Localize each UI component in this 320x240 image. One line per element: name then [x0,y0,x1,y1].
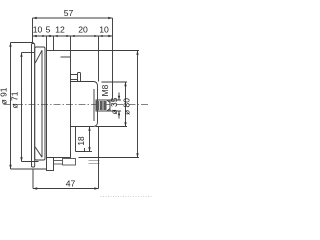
dim 57 line [33,17,113,19]
bottom box C [89,160,100,162]
filling plug [71,74,78,76]
bezel outer rim (ø91) [32,44,35,168]
dim M8 arrows outside [118,93,120,101]
dim ø71 line [21,53,23,162]
svg-text:5: 5 [46,24,51,34]
dim M8 ext bottom [109,110,122,112]
svg-text:ø 71: ø 71 [10,91,20,108]
housing rear inner line [93,89,95,121]
svg-text:10: 10 [33,24,43,34]
ext ø80 bottom [79,157,140,159]
window cone top [35,50,42,63]
dim ø35 line [125,82,127,127]
svg-text:47: 47 [66,178,76,188]
svg-text:12: 12 [55,24,65,34]
bottom block A [47,158,54,171]
ext line bezel front bottom [32,169,34,189]
svg-text:57: 57 [64,8,74,18]
ext line tick 70 [70,36,72,51]
ext ø71 bottom [22,161,39,163]
dim ø91 line [10,43,12,170]
ext ø35 bottom [96,126,128,128]
ext line stem tip [112,18,114,100]
dim chain line [33,35,113,37]
svg-text:18: 18 [76,136,86,146]
rear housing (ø35) [71,82,98,127]
case body (ø80) [47,51,71,158]
ext line tick 53 [53,36,55,51]
svg-text:ø 80: ø 80 [122,98,132,115]
ext line tick 98 [98,36,100,82]
case rear step line [61,56,71,58]
stem thread [97,101,107,110]
chain internal arrow ticks [42,35,102,37]
ext ø91 top [11,42,34,44]
window glass edge [41,50,43,157]
svg-text:M8: M8 [100,84,110,96]
ext ø71 top [22,52,35,54]
ext line bezel front [32,18,34,43]
dim 18 line [89,127,91,152]
ext ø80 top [71,50,140,52]
bracket leg [75,127,77,152]
svg-text:ø 35: ø 35 [109,97,119,114]
svg-text:20: 20 [78,24,88,34]
ext line tick 46 [46,36,48,51]
dim 47 line [33,188,99,190]
dim M8 ext top [109,99,122,101]
ext ø91 bottom [11,168,47,170]
ext 18 bottom [82,151,93,153]
svg-text:ø 91: ø 91 [0,87,9,104]
svg-text:10: 10 [99,24,109,34]
centerline [4,104,150,106]
stem M8 [96,100,110,111]
dotted artifact bottom right [101,196,154,198]
stem chamfer [107,100,110,103]
window cone bottom [35,147,42,157]
bezel main ring [35,47,45,160]
dim ø80 line [137,51,139,158]
bottom pipe [54,160,63,162]
ext ø35 top [102,81,128,83]
bottom box B [63,159,76,166]
ext line 47 right [98,127,100,189]
bracket foot [76,148,85,152]
